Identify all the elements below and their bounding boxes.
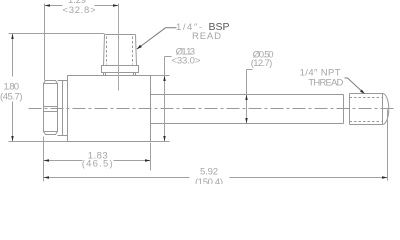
svg-text:THREAD: THREAD	[308, 77, 343, 88]
svg-text:(150.4): (150.4)	[195, 177, 223, 184]
svg-text:(45.7): (45.7)	[0, 92, 23, 103]
svg-text:(12.7): (12.7)	[251, 58, 272, 69]
svg-text:(46.5): (46.5)	[82, 158, 113, 169]
svg-text:<32.8>: <32.8>	[63, 5, 96, 16]
svg-text:5.92: 5.92	[200, 167, 218, 178]
svg-text:BSP: BSP	[209, 21, 230, 33]
svg-text:<33.0>: <33.0>	[171, 56, 200, 67]
